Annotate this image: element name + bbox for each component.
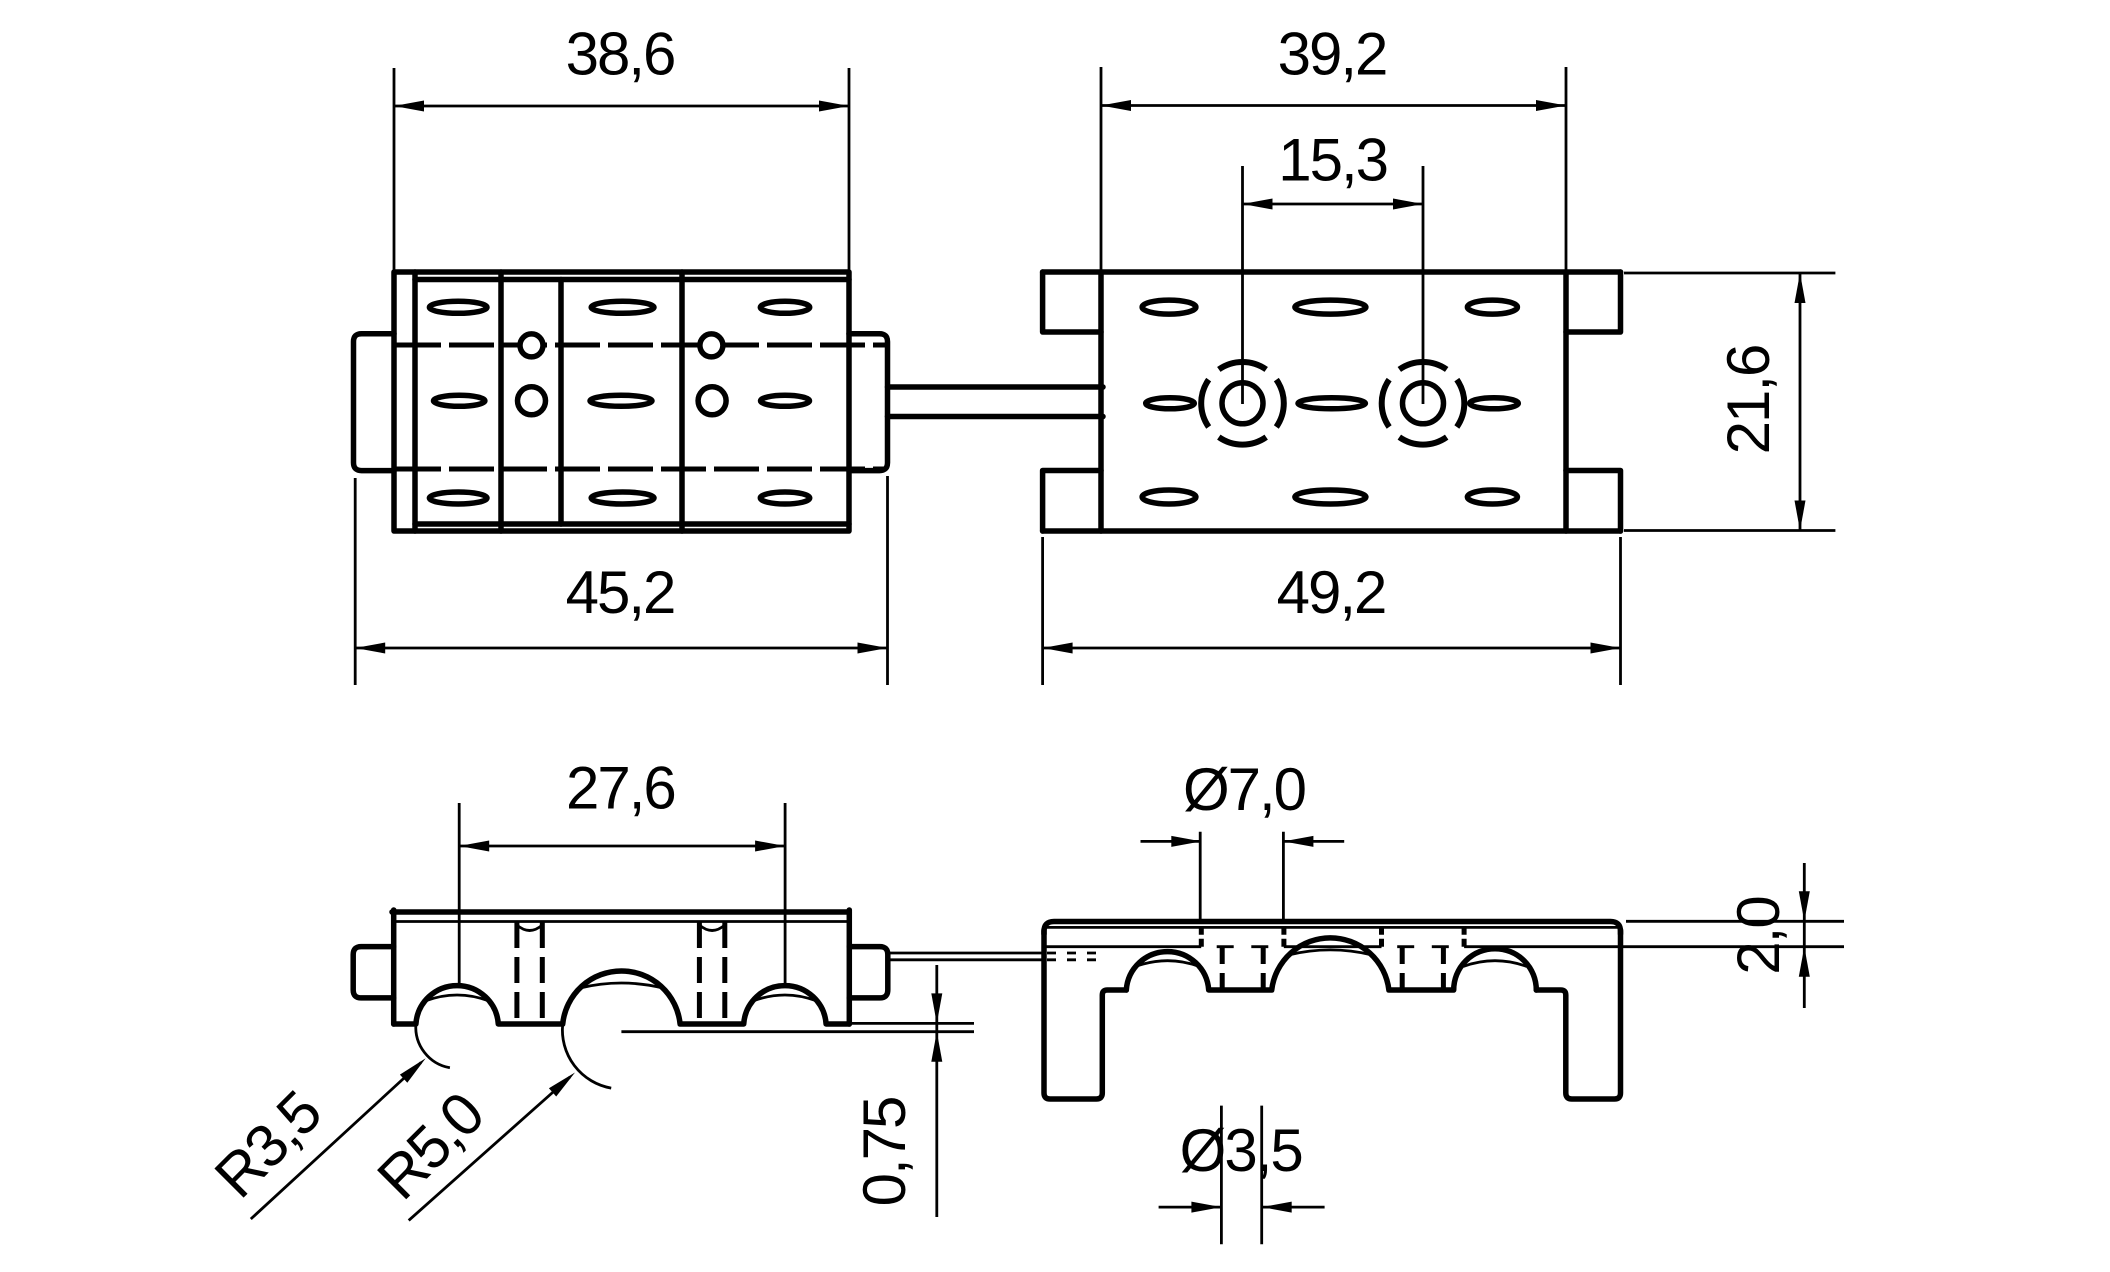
dim 27,6 arrow left [459, 841, 489, 852]
sbase top edge [392, 909, 849, 915]
leader R5,0 line [409, 1077, 570, 1220]
dim 21,6 arrow bottom [1795, 501, 1806, 531]
scover hole2 counterbore hidden right [1462, 927, 1467, 947]
base centerline lower [396, 467, 886, 472]
base slot row3 s1 [429, 492, 487, 504]
leader R3,5 line [251, 1063, 421, 1220]
base slot row1 s1 [429, 301, 487, 313]
sbase left edge [391, 910, 397, 1024]
dim 49,2 extension left [1041, 537, 1044, 685]
sbase plate inner line [396, 920, 847, 923]
base hole small B [700, 334, 723, 357]
dim 49,2 arrow left [1043, 643, 1073, 654]
svg-text:49,2: 49,2 [1277, 559, 1386, 626]
dim 38,6 line [394, 105, 849, 108]
svg-text:45,2: 45,2 [566, 559, 675, 626]
base divider wall 1 [412, 272, 418, 531]
dim d7 line left [1141, 840, 1202, 843]
base body outer rectangle [394, 272, 849, 531]
sbase counterbore arc pair1 [517, 925, 542, 931]
cover body left edge [1098, 272, 1104, 531]
cover slot row1 c1 [1142, 300, 1196, 314]
leader R5,0 arrow [549, 1073, 575, 1097]
dim 0,75 line [935, 965, 938, 1217]
dim 49,2 arrow right [1591, 643, 1621, 654]
base slot row2 s1 [434, 395, 485, 406]
svg-text:2,0: 2,0 [1725, 897, 1792, 975]
dim 39,2 arrow right [1536, 100, 1566, 111]
dim d35 line right [1262, 1206, 1325, 1209]
dim 21,6 arrow top [1795, 273, 1806, 303]
scover top edge [1044, 922, 1621, 935]
dim d7 extension right [1282, 832, 1285, 922]
dim 0,75 arrow top [931, 993, 942, 1023]
scover hole2 shank hidden left [1400, 947, 1405, 990]
dim d7 arrow left [1171, 836, 1201, 847]
scover groove1 far edge lens [1136, 961, 1199, 967]
cover slot row2 c3 [1470, 398, 1519, 409]
scover counterbore depth line [1046, 945, 1844, 948]
sbase groove3 far edge lens [753, 995, 817, 1001]
dim 20 arrow bottom [1799, 947, 1810, 977]
base hole small A [520, 334, 543, 357]
hole2 centerline [1422, 166, 1425, 404]
cover screw hole1 [1222, 383, 1263, 424]
svg-text:21,6: 21,6 [1715, 346, 1782, 455]
base inner bottom edge [415, 521, 849, 527]
connector bar side view [888, 952, 1044, 955]
base divider wall 3 [558, 280, 564, 525]
sbase hidden hole pair 1 [514, 922, 519, 1024]
dim d7 extension left [1199, 832, 1202, 922]
svg-text:Ø7,0: Ø7,0 [1183, 756, 1306, 823]
dim 27,6 extension right [784, 803, 787, 988]
cover tab bottom-left [1043, 471, 1101, 532]
hole1 centerline [1241, 166, 1244, 404]
cover slot row3 c2 [1295, 490, 1366, 504]
dim 45,2 line [355, 647, 887, 650]
cover slot row1 c3 [1467, 300, 1517, 314]
dim 0,75 arrow bottom [931, 1032, 942, 1062]
cover slot row3 c1 [1142, 490, 1196, 504]
sbase left tab [353, 947, 394, 998]
base slot row1 s3 [591, 301, 654, 313]
cover tab top-right [1566, 272, 1621, 332]
base slot row1 s4 [760, 301, 809, 313]
dim 45,2 extension left [354, 478, 357, 685]
connector bar top view [888, 384, 1104, 390]
dim d7 arrow right [1283, 836, 1313, 847]
scover left leg [1044, 930, 1126, 1099]
scover hole1 shank hidden left [1220, 947, 1225, 990]
dim d7 line right [1283, 840, 1344, 843]
scover underside profile with three grooves [1126, 938, 1536, 990]
dim d35 arrow left [1191, 1202, 1221, 1213]
scover groove2 far edge lens [1289, 950, 1372, 955]
sbase right edge [847, 910, 853, 1024]
cover slot row2 c2 [1298, 398, 1365, 409]
dim 21,6 extension bottom [1624, 529, 1835, 532]
cover tab bottom-right [1566, 471, 1621, 532]
base hole big B [698, 387, 726, 415]
base divider wall 2 [498, 272, 504, 531]
base slot row3 s4 [760, 492, 809, 504]
sbase hidden hole pair 2 [697, 922, 702, 1024]
cover counterbore dashed circle hole1 [1201, 362, 1284, 445]
sbase groove1 far edge lens [425, 995, 489, 1001]
dim 38,6 arrow left [394, 101, 424, 112]
scover plate inner line [1046, 926, 1618, 929]
cover body right edge [1563, 272, 1569, 531]
cover top edge [1043, 269, 1621, 275]
leader R3,5 arrow [400, 1058, 426, 1082]
dim 21,6 line [1799, 273, 1802, 531]
base inner top edge [415, 277, 849, 283]
dim 15,3 line [1243, 203, 1424, 206]
svg-text:38,6: 38,6 [566, 21, 675, 88]
dim 49,2 extension right [1619, 537, 1622, 685]
cover slot row2 c1 [1146, 398, 1195, 409]
base slot row3 s3 [591, 492, 654, 504]
scover hole1 shank hidden right [1261, 947, 1266, 990]
base slot row2 s4 [761, 395, 810, 406]
svg-text:15,3: 15,3 [1278, 127, 1387, 194]
cover tab top-left [1043, 272, 1101, 332]
dim 39,2 extension left [1100, 67, 1103, 270]
svg-text:Ø3,5: Ø3,5 [1180, 1117, 1302, 1184]
dim 0,75 reference line groove center [621, 1030, 974, 1033]
dim 20 extension top [1626, 920, 1844, 923]
scover hole1 counterbore hidden right [1281, 927, 1286, 947]
base slot row2 s3 [590, 395, 652, 406]
dim 27,6 arrow right [755, 841, 785, 852]
dim 39,2 line [1101, 104, 1566, 107]
dim 45,2 arrow right [858, 643, 888, 654]
sbase right tab [849, 947, 888, 998]
svg-text:27,6: 27,6 [566, 755, 675, 822]
dim d35 extension right [1260, 1106, 1263, 1245]
dim 39,2 arrow left [1101, 100, 1131, 111]
scover right leg [1536, 930, 1620, 1099]
sbase groove2 circle continuation [562, 1024, 611, 1088]
base centerline upper [396, 343, 886, 348]
sbase groove1 circle continuation [416, 1024, 450, 1068]
dim 45,2 extension right [886, 476, 889, 685]
dim 15,3 arrow left [1243, 199, 1273, 210]
cover counterbore dashed circle hole2 [1382, 362, 1465, 445]
dim d35 line left [1159, 1206, 1222, 1209]
cover slot row3 c3 [1467, 490, 1517, 504]
dim 0,75 extension upper (bottom edge extended) [851, 1022, 974, 1025]
dim 20 line [1803, 863, 1806, 1008]
dim d35 arrow right [1262, 1202, 1292, 1213]
dim 38,6 extension left [393, 68, 396, 270]
dim 38,6 arrow right [819, 101, 849, 112]
sbase counterbore arc pair2 [699, 925, 724, 931]
dim 20 arrow top [1799, 891, 1810, 921]
svg-text:0,75: 0,75 [851, 1098, 918, 1207]
cover slot row1 c2 [1295, 300, 1366, 314]
scover groove3 far edge lens [1463, 961, 1526, 967]
dim 39,2 extension right [1565, 67, 1568, 270]
base divider wall 4 [679, 272, 685, 531]
cover bottom edge [1043, 528, 1621, 534]
base right tab [849, 334, 888, 471]
scover hole2 counterbore hidden left [1379, 927, 1384, 947]
connector bar hidden inside cover [1047, 952, 1097, 955]
dim 49,2 line [1043, 647, 1621, 650]
svg-text:39,2: 39,2 [1278, 21, 1387, 88]
sbase bottom profile with three grooves [394, 971, 850, 1024]
base hole big A [518, 387, 546, 415]
dim 27,6 line [459, 845, 785, 848]
dim 15,3 arrow right [1393, 199, 1423, 210]
sbase groove2 far edge lens [580, 983, 663, 988]
scover hole2 shank hidden right [1441, 947, 1446, 990]
dim 38,6 extension right [848, 68, 851, 270]
dim 45,2 arrow left [355, 643, 385, 654]
dim 21,6 extension top [1624, 272, 1835, 275]
dim d35 extension left [1220, 1106, 1223, 1245]
base left tab [354, 334, 395, 471]
dim 27,6 extension left [458, 803, 461, 988]
scover hole1 counterbore hidden left [1199, 927, 1204, 947]
cover screw hole2 [1403, 383, 1444, 424]
